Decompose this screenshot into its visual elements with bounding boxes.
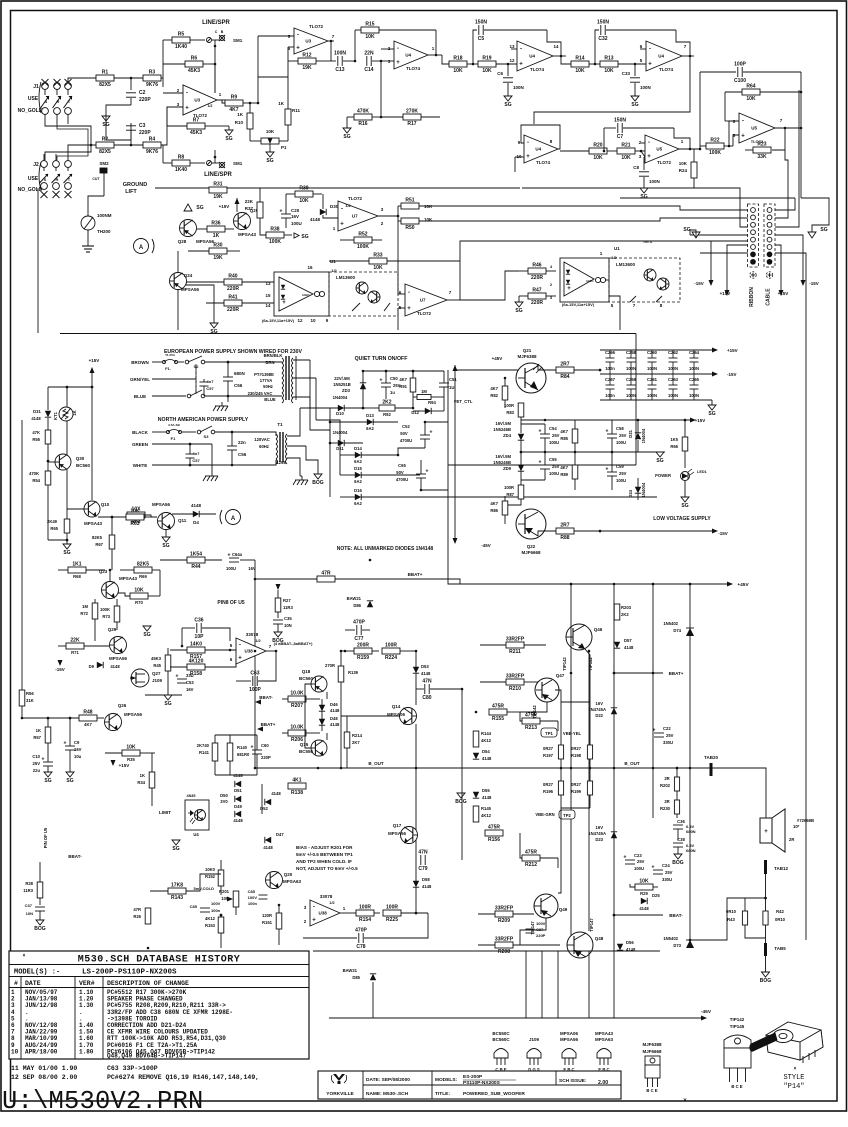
wire R212 to Q48 base (557, 858, 559, 868)
svg-text:F1: F1 (171, 436, 176, 441)
svg-text:Q22: Q22 (527, 544, 536, 549)
svg-text:JUN/12/98: JUN/12/98 (25, 1002, 58, 1009)
svg-text:J109: J109 (152, 678, 163, 683)
resistor R36 (207, 226, 225, 232)
svg-text:D16: D16 (354, 488, 362, 493)
svg-text:D47: D47 (276, 832, 284, 837)
svg-text:0R27: 0R27 (543, 782, 554, 787)
ground BOG under C38 (674, 854, 682, 859)
svg-text:4148: 4148 (482, 795, 492, 800)
connector J1 (42, 83, 49, 90)
resistor R210b (506, 679, 524, 685)
bus +45V from PSU (425, 370, 448, 422)
wire speaker net to right bus (690, 898, 745, 940)
svg-text:4148: 4148 (310, 217, 321, 222)
diodes inside U1 second (566, 270, 570, 274)
svg-text:100NM: 100NM (97, 213, 112, 218)
switch S3 (197, 430, 201, 434)
svg-text:19K: 19K (213, 194, 223, 200)
svg-text:SG: SG (210, 329, 217, 335)
svg-text:1/2: 1/2 (611, 255, 617, 260)
svg-text:SG: SG (164, 701, 171, 707)
resistor R89 (572, 465, 578, 479)
svg-text:U4: U4 (658, 54, 664, 59)
chassis ground T1 (301, 476, 303, 480)
svg-text:12: 12 (297, 318, 303, 323)
svg-text:1K: 1K (278, 101, 285, 106)
svg-text:U7: U7 (420, 298, 426, 303)
diode D56 (617, 944, 623, 950)
svg-text:C8: C8 (633, 165, 639, 170)
svg-text:R35: R35 (127, 757, 135, 762)
svg-text:C13: C13 (335, 67, 344, 73)
svg-text:P1: P1 (281, 145, 287, 150)
svg-text:100U: 100U (291, 221, 302, 226)
vertical drops to -45V (372, 982, 374, 1018)
svg-text:1N4745A: 1N4745A (588, 707, 606, 712)
capacitor C13 (331, 60, 336, 62)
svg-text:U5: U5 (656, 147, 662, 152)
svg-text:82K5: 82K5 (92, 535, 103, 540)
transistor Q14 (400, 708, 417, 725)
svg-text:U3: U3 (305, 39, 311, 44)
svg-text:+: + (407, 306, 411, 312)
svg-text:SG: SG (44, 778, 51, 784)
resistor R68 (68, 567, 86, 573)
resistor R230b (674, 800, 679, 814)
resistor R66 (682, 437, 688, 451)
svg-text:4148: 4148 (31, 416, 41, 421)
bus second row (37, 188, 39, 333)
svg-text:R86: R86 (490, 508, 498, 513)
svg-text:SG: SG (681, 503, 688, 509)
resistor R44 (187, 557, 205, 563)
svg-text:+15V: +15V (219, 204, 230, 209)
svg-text:3V0: 3V0 (220, 799, 228, 804)
resistor R94 (417, 395, 431, 400)
svg-text:4K7: 4K7 (490, 501, 498, 506)
svg-text:4148: 4148 (233, 818, 243, 823)
svg-text:10: 10 (310, 318, 316, 323)
svg-text:MPSA56: MPSA56 (181, 287, 200, 292)
capacitor C79 (420, 855, 422, 865)
ground BOG under TAB5 (762, 972, 770, 977)
resistor R85 (572, 429, 578, 443)
capacitor C85c (200, 907, 210, 909)
resistor R39 (295, 191, 313, 197)
svg-text:150N: 150N (475, 20, 487, 26)
svg-text:NAME: M530-.SCH: NAME: M530-.SCH (366, 1091, 409, 1097)
svg-text:MJF6668: MJF6668 (642, 1049, 662, 1054)
resistor R156b (485, 830, 503, 836)
svg-text:R29: R29 (640, 891, 648, 896)
svg-text:50Hz: 50Hz (263, 384, 273, 389)
svg-text:R14: R14 (575, 56, 584, 62)
svg-text:GRN/YEL: GRN/YEL (130, 377, 150, 382)
svg-text:PC#6274 REMOVE Q16,19 R146,147: PC#6274 REMOVE Q16,19 R146,147,148,149, (107, 1074, 259, 1081)
transistor Q10 (84, 501, 100, 517)
capacitor C36b (196, 623, 198, 633)
resistor R199b (587, 781, 592, 795)
svg-text:R155: R155 (492, 716, 504, 722)
svg-text:10K: 10K (453, 68, 463, 74)
svg-text:MPSA56: MPSA56 (388, 831, 407, 836)
switch SM2 (100, 168, 107, 173)
svg-text:R27: R27 (283, 598, 291, 603)
resistor R212b (522, 855, 540, 861)
resistor R207 (288, 696, 306, 702)
svg-text:Q46: Q46 (594, 627, 603, 632)
svg-text:120R: 120R (262, 913, 272, 918)
svg-text:R230: R230 (660, 806, 671, 811)
svg-text:LIFT: LIFT (125, 189, 137, 195)
resistor R84 (556, 367, 574, 373)
svg-text:NOT, ADJUST TO 6mV +/-0.5: NOT, ADJUST TO 6mV +/-0.5 (296, 866, 358, 871)
svg-text:0R27: 0R27 (571, 782, 582, 787)
svg-text:2K49: 2K49 (47, 519, 58, 524)
diode D15 (355, 472, 361, 478)
svg-text:22u: 22u (33, 768, 41, 773)
svg-text:R2: R2 (102, 137, 109, 143)
svg-text:T1.25A: T1.25A (165, 353, 176, 357)
capacitor C77 (356, 625, 358, 635)
svg-text:T1: T1 (277, 422, 283, 427)
op-amp U3 second (294, 28, 328, 54)
svg-text:2R: 2R (789, 837, 794, 842)
transistor Q17 (401, 827, 418, 844)
transistor Q29 (110, 637, 127, 654)
svg-text:B C E: B C E (646, 1088, 657, 1093)
dashed box U1 mirror (329, 272, 398, 316)
svg-text:-15V: -15V (694, 281, 704, 286)
resistor R92 (379, 405, 395, 411)
wire limit rows (215, 734, 257, 736)
wire quiet top rail (363, 370, 444, 372)
resistor R12 (298, 58, 316, 64)
svg-text:200R: 200R (357, 643, 369, 649)
svg-text:220R: 220R (227, 307, 239, 313)
wire output emitter resistors (560, 702, 562, 745)
resistor R158 (187, 664, 205, 670)
svg-text:LINE/SPR: LINE/SPR (202, 20, 230, 26)
svg-text:MJF6388: MJF6388 (642, 1042, 662, 1047)
svg-text:BBAT+: BBAT+ (408, 572, 423, 577)
bus PSU top (60, 333, 636, 335)
psu node wires (329, 430, 331, 497)
wire J1 to R1 (68, 78, 96, 82)
svg-text:POWER: POWER (655, 473, 671, 478)
svg-text:10K: 10K (221, 896, 229, 901)
svg-text:C56: C56 (234, 383, 243, 388)
svg-text:NOTE: ALL UNMARKED DIODES 1N41: NOTE: ALL UNMARKED DIODES 1N4148 (337, 546, 434, 552)
svg-text:C32: C32 (598, 36, 607, 42)
resistor R1 (96, 75, 114, 81)
svg-text:50V: 50V (400, 431, 408, 436)
svg-text:(6a-15V,11a+15V): (6a-15V,11a+15V) (562, 302, 595, 307)
capacitor C35 (273, 619, 283, 621)
connector J2 (41, 161, 48, 168)
thermistor KT1 (66, 387, 68, 407)
svg-text:R151: R151 (262, 920, 273, 925)
svg-text:19K: 19K (302, 65, 312, 71)
svg-text:2R7: 2R7 (560, 523, 569, 529)
op-amp U5 first (645, 135, 679, 163)
ground SG under Q24 (210, 323, 218, 328)
svg-text:470P: 470P (355, 928, 367, 934)
svg-text:150N: 150N (614, 118, 626, 124)
resistor R224 (382, 648, 400, 654)
svg-text:R50: R50 (405, 225, 414, 231)
svg-text:MPSA56: MPSA56 (196, 239, 215, 244)
diode D4 (193, 511, 199, 517)
svg-text:100R: 100R (504, 485, 514, 490)
svg-text:D86: D86 (353, 603, 361, 608)
table column dividers (20, 977, 22, 1060)
svg-text:C3: C3 (139, 123, 146, 129)
svg-text:D55: D55 (482, 788, 490, 793)
resistor R141b (212, 743, 218, 761)
svg-text:11R3: 11R3 (23, 888, 33, 893)
resistor R67 (109, 535, 115, 549)
svg-text:S: S (45, 99, 48, 104)
transistors inside U1 dashed box (356, 282, 368, 294)
svg-text:TLO72: TLO72 (348, 196, 363, 201)
transistor Q18 (311, 676, 327, 692)
svg-text:1N5246B: 1N5246B (493, 460, 511, 465)
svg-text:10K: 10K (266, 129, 275, 134)
svg-text:R82: R82 (490, 393, 498, 398)
svg-text:177VA: 177VA (260, 378, 273, 383)
svg-text:-: - (341, 207, 343, 213)
svg-text:QUIET TURN ON/OFF: QUIET TURN ON/OFF (355, 356, 408, 362)
svg-text:1N4004: 1N4004 (641, 428, 646, 443)
svg-text:R: R (56, 177, 59, 182)
svg-text:-15V: -15V (718, 531, 728, 536)
transistor Q11 (158, 513, 175, 530)
svg-text:330U: 330U (663, 740, 673, 745)
svg-text:82X5: 82X5 (99, 82, 111, 88)
svg-text:BBAT-: BBAT- (669, 913, 683, 918)
svg-text:LM13600: LM13600 (616, 262, 636, 267)
svg-text:47R: 47R (133, 907, 141, 912)
svg-text:M530.SCH DATABASE HISTORY: M530.SCH DATABASE HISTORY (78, 955, 241, 966)
svg-text:45K3: 45K3 (188, 68, 200, 74)
svg-text:1u: 1u (390, 390, 395, 395)
svg-text:R158: R158 (190, 671, 202, 677)
svg-text:4148: 4148 (624, 645, 634, 650)
svg-text:10K: 10K (575, 68, 585, 74)
svg-text:220R: 220R (531, 300, 543, 306)
svg-text:BC560C: BC560C (492, 1037, 510, 1042)
svg-text:270K: 270K (406, 109, 418, 115)
ground SG under C53 (145, 694, 182, 696)
svg-text:C20: C20 (291, 208, 300, 213)
resistor R23 (753, 147, 771, 153)
capacitor C9 (65, 745, 75, 747)
potentiometer R201 (233, 891, 239, 907)
svg-text:10K: 10K (621, 155, 631, 161)
resistor R11 (285, 109, 291, 125)
svg-text:150N: 150N (597, 20, 609, 26)
svg-text:C57: C57 (192, 458, 200, 463)
resistor R14 (571, 61, 589, 67)
svg-text:475R: 475R (488, 825, 500, 831)
svg-text:R89: R89 (560, 472, 568, 477)
svg-text:R21: R21 (621, 143, 630, 149)
ground SG under P1 (266, 152, 274, 157)
svg-text:C2: C2 (139, 90, 146, 96)
svg-text:R41: R41 (228, 295, 237, 301)
svg-text:USE: USE (28, 176, 39, 182)
svg-text:E B C: E B C (598, 1067, 609, 1072)
svg-text:C7: C7 (617, 134, 624, 140)
svg-text:R94: R94 (428, 400, 436, 405)
svg-text:PIN8 OF U5: PIN8 OF U5 (217, 600, 244, 606)
potentiometer style P14 drawing (750, 1022, 823, 1063)
svg-text:R72: R72 (80, 611, 88, 616)
svg-text:TP2: TP2 (563, 813, 571, 818)
svg-text:LED1: LED1 (697, 470, 707, 474)
svg-text:680N: 680N (686, 848, 696, 853)
capacitor C63b (252, 676, 254, 686)
svg-text:100P: 100P (249, 687, 261, 693)
svg-text:R66: R66 (670, 444, 678, 449)
wire U5 output right (775, 127, 801, 129)
diode D21 (635, 433, 641, 439)
svg-text:10: 10 (11, 1048, 19, 1055)
table M530 database history (9, 951, 309, 1059)
resistor R3 (143, 75, 161, 81)
svg-text:R17: R17 (407, 121, 416, 127)
svg-text:33078: 33078 (246, 632, 259, 637)
svg-text:D53: D53 (421, 664, 429, 669)
resistor R214b (344, 732, 350, 748)
svg-text:14K0: 14K0 (190, 642, 202, 648)
svg-text:R196: R196 (543, 789, 554, 794)
svg-text:680N: 680N (686, 829, 696, 834)
svg-text:MPSA06: MPSA06 (560, 1031, 579, 1036)
svg-text:TLO74: TLO74 (536, 160, 551, 165)
svg-text:MPSA43: MPSA43 (84, 521, 103, 526)
resistor R9 (225, 100, 243, 106)
svg-text:220P: 220P (139, 130, 151, 136)
resistor R153b (218, 917, 224, 933)
svg-text:10K: 10K (299, 198, 309, 204)
svg-text:SG: SG (63, 550, 70, 556)
switch SM1 bottom (207, 161, 212, 166)
svg-text:U1: U1 (614, 246, 620, 251)
svg-text:2K7: 2K7 (352, 740, 360, 745)
svg-text:220P: 220P (139, 97, 151, 103)
svg-text:R202: R202 (660, 783, 671, 788)
svg-text:4K12: 4K12 (481, 738, 492, 743)
svg-text:C14: C14 (364, 67, 373, 73)
chassis ground NA (211, 444, 213, 472)
resistor R154b (356, 910, 374, 916)
ground SG under opto (175, 824, 177, 840)
svg-text:+: + (539, 429, 542, 435)
resistor R71 (66, 643, 84, 649)
svg-text:R64: R64 (746, 84, 755, 90)
svg-text:SG: SG (343, 134, 350, 140)
svg-text:R23: R23 (757, 142, 766, 148)
svg-text:6A2: 6A2 (366, 426, 374, 431)
svg-text:R47: R47 (532, 288, 541, 294)
svg-text:R7: R7 (193, 118, 200, 124)
capacitor C6 (507, 64, 509, 76)
wire input bus (162, 40, 164, 87)
transistor Q11 net (127, 512, 145, 518)
svg-text:5mV,COLD: 5mV,COLD (193, 886, 214, 891)
svg-text:+: + (606, 429, 609, 435)
svg-text:MODELS:: MODELS: (435, 1077, 458, 1083)
thermistor TH200 (81, 216, 95, 230)
svg-text:16V: 16V (74, 747, 82, 752)
svg-text:C54: C54 (549, 426, 557, 431)
svg-text:1/2: 1/2 (255, 639, 260, 643)
supply +15V under Q26 (112, 748, 114, 760)
svg-text:10K0: 10K0 (205, 867, 216, 872)
svg-text:Q29: Q29 (108, 627, 117, 632)
wire R139 to B_OUT (340, 700, 342, 768)
svg-text:22V/.5M: 22V/.5M (334, 376, 350, 381)
svg-text:-: - (527, 140, 529, 146)
svg-text:100K: 100K (100, 607, 110, 612)
diode D55 (473, 792, 479, 798)
svg-text:SG: SG (640, 194, 647, 200)
ground SG right of R38 (294, 233, 299, 238)
svg-text:F1.: F1. (165, 366, 171, 371)
svg-text:BC550: BC550 (299, 749, 314, 754)
svg-text:1K40: 1K40 (175, 44, 187, 50)
svg-text:R15: R15 (365, 22, 374, 28)
resistor R72 (92, 603, 98, 619)
capacitor C22 (654, 732, 664, 734)
svg-text:R4: R4 (149, 137, 156, 143)
svg-text:D51: D51 (234, 788, 242, 793)
svg-text:100R: 100R (386, 905, 398, 911)
svg-text:MODEL(S) :-: MODEL(S) :- (14, 969, 60, 977)
svg-text:+: + (539, 460, 542, 466)
svg-text:C58: C58 (616, 426, 624, 431)
svg-text:R214: R214 (352, 733, 363, 738)
resistor R157 (187, 647, 205, 653)
svg-text:R209: R209 (498, 918, 510, 924)
svg-text:4148: 4148 (110, 664, 120, 669)
wire U4 out to lower row (534, 56, 690, 124)
svg-text:4148: 4148 (263, 845, 273, 850)
svg-text:LOW VOLTAGE SUPPLY: LOW VOLTAGE SUPPLY (653, 516, 711, 522)
svg-text:-45V: -45V (701, 1009, 712, 1015)
svg-text:AND TP2 WHEN COLD. IF: AND TP2 WHEN COLD. IF (296, 859, 352, 864)
svg-text:TIP145: TIP145 (730, 1024, 745, 1029)
svg-text:D14: D14 (354, 446, 362, 451)
capacitor C51 (439, 382, 449, 384)
svg-text:(4 aBBAT-,8aBBAT+): (4 aBBAT-,8aBBAT+) (274, 641, 314, 646)
transistors inside U1 second dashed box (644, 269, 656, 281)
svg-text:470K: 470K (357, 109, 369, 115)
svg-text:C36: C36 (194, 618, 203, 624)
svg-text:2K2: 2K2 (382, 400, 391, 406)
svg-text:SG: SG (708, 411, 715, 417)
svg-text:-: - (397, 46, 399, 52)
svg-text:Q30: Q30 (76, 456, 85, 461)
svg-text:R19: R19 (482, 56, 491, 62)
bus +45V rail bottom (447, 422, 449, 560)
svg-text:R73: R73 (102, 614, 110, 619)
svg-text:100N: 100N (640, 85, 651, 90)
svg-text:R9: R9 (231, 95, 238, 101)
